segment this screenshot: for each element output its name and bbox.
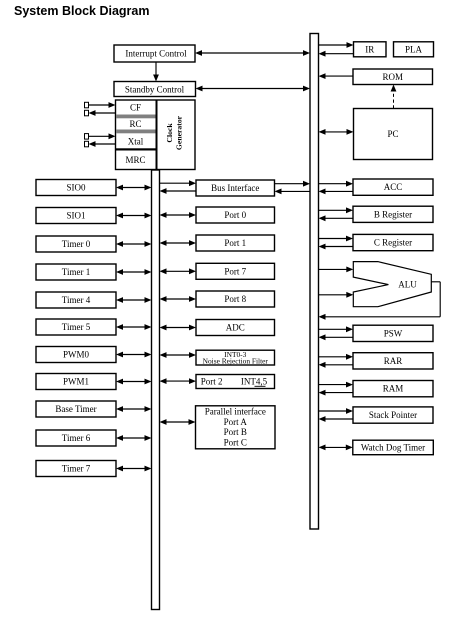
right internal bus (vertical bar) [310,34,319,530]
svg-text:INT4,5: INT4,5 [241,377,268,387]
svg-text:SIO0: SIO0 [66,183,86,193]
svg-text:PWM0: PWM0 [63,350,90,360]
wire central bus to Bus Interface (arrow right) [160,180,197,186]
svg-text:Timer 5: Timer 5 [62,322,91,332]
block IR [354,42,387,57]
svg-text:Xtal: Xtal [128,136,144,146]
svg-text:RC: RC [129,119,141,129]
wire clock generator to Xtal pin (arrow left) [89,141,116,147]
wire PWM1 to central bus (bidirectional) [116,379,152,385]
wire right bus to IR (arrow right) [319,42,354,48]
wire right bus to Watch Dog Timer (bidirectional) [319,445,353,451]
wire ACC to right bus (arrow left) [319,189,354,195]
block Bus Interface [196,180,275,196]
svg-text:Parallel interface: Parallel interface [205,407,266,417]
svg-text:Interrupt Control: Interrupt Control [125,49,187,59]
svg-text:RAM: RAM [383,384,404,394]
wire central bus to parallel interface (bidirectional) [160,419,196,425]
svg-text:MRC: MRC [125,155,145,165]
wire clock generator to CF pin (arrow left) [89,110,116,116]
block Timer 4 [36,292,116,308]
block Interrupt Control [114,45,195,62]
block ACC [353,179,433,195]
wire right bus to ALU upper input (arrow right) [319,267,354,273]
block PC [354,109,433,160]
svg-text:ACC: ACC [384,182,403,192]
block PSW [353,325,433,341]
wire Timer 5 to central bus (bidirectional) [116,324,152,330]
central internal bus (vertical bar) [152,170,160,610]
wire right bus to ALU lower input (arrow right) [319,292,354,298]
svg-text:IR: IR [365,45,374,55]
block Port 2 / INT4,5 [196,375,275,389]
block Timer 5 [36,319,116,335]
block Timer 6 [36,430,116,446]
block INT0-3 Noise Rejection Filter [196,350,275,366]
wire PWM0 to central bus (bidirectional) [116,352,152,358]
block ROM [353,69,433,85]
wire Timer 6 to central bus (bidirectional) [116,435,152,441]
pin square CF out [85,110,89,116]
block PWM1 [36,374,116,390]
block Port 7 [196,263,275,279]
wire Interrupt Control to Standby Control (down arrow) [153,62,159,82]
svg-text:PLA: PLA [405,45,423,55]
wire PSW to right bus (arrow left) [319,334,354,340]
block Timer 7 [36,461,116,477]
wire B Register to right bus (arrow left) [319,215,354,221]
svg-text:Base Timer: Base Timer [55,404,96,414]
pin square CF in [85,102,89,108]
block PWM0 [36,347,116,363]
svg-text:Timer 4: Timer 4 [62,295,91,305]
svg-text:Port B: Port B [224,427,247,437]
wire right bus to ACC (arrow right) [319,181,354,187]
wire Timer 0 to central bus (bidirectional) [116,241,152,247]
wire PC to ROM (dashed up arrow) [391,85,397,109]
wire central bus to ADC (bidirectional) [160,325,197,331]
svg-text:ADC: ADC [226,323,245,333]
svg-text:PSW: PSW [384,328,403,338]
wire SIO1 to central bus (bidirectional) [116,213,152,219]
svg-text:Stack Pointer: Stack Pointer [369,410,417,420]
wire right bus to B Register (arrow right) [319,207,354,213]
svg-text:Port 1: Port 1 [224,238,246,248]
svg-text:Timer 0: Timer 0 [62,239,91,249]
svg-text:Noise Rejection Filter: Noise Rejection Filter [203,357,269,366]
block C Register [353,234,433,250]
block ADC [196,320,275,336]
block Clock Generator (CF / RC / Xtal / MRC) [116,100,196,170]
svg-text:Port 2: Port 2 [201,377,223,387]
svg-text:Timer 6: Timer 6 [62,433,91,443]
wire central bus to Port 2 (bidirectional) [160,378,197,384]
block SIO1 [36,208,116,224]
wire IR to right bus (arrow left) [319,51,354,57]
pin square Xtal in [85,134,89,140]
block PLA [394,42,434,57]
wire RAR to right bus (arrow left) [319,362,354,368]
block RAR [353,353,433,369]
wire Stack Pointer to right bus (arrow left) [319,416,354,422]
block Watch Dog Timer [353,440,434,455]
wire Bus Interface to right bus (arrow right) [275,181,311,187]
block Standby Control [114,82,196,97]
wire right bus to RAM (arrow right) [319,382,354,388]
wire central bus to Port 8 (bidirectional) [160,296,197,302]
wire right bus to Stack Pointer (arrow right) [319,408,354,414]
svg-text:System Block Diagram: System Block Diagram [14,4,149,18]
wire ALU output feedback to right bus (arrow left at bus) [319,282,441,320]
wire right bus to C Register (arrow right) [319,236,354,242]
svg-text:Port 8: Port 8 [224,294,246,304]
wire Timer 7 to central bus (bidirectional) [116,466,152,472]
wire Timer 4 to central bus (bidirectional) [116,297,152,303]
svg-text:Port 0: Port 0 [224,210,246,220]
wire central bus to Port 1 (bidirectional) [160,240,197,246]
wire right bus to Bus Interface (arrow left) [275,189,311,195]
svg-text:CF: CF [130,102,141,112]
wire CF pin to clock generator (arrow right) [89,102,116,108]
block SIO0 [36,180,116,196]
svg-text:Watch Dog Timer: Watch Dog Timer [361,443,425,453]
block Timer 0 [36,236,116,252]
wire ROM to right bus (arrow left) [319,73,354,79]
block Port 8 [196,291,275,307]
svg-text:Bus Interface: Bus Interface [211,183,259,193]
wire central bus to noise rejection filter (bidirectional) [160,352,197,358]
wire central bus to Port 0 (bidirectional) [160,212,197,218]
wire Interrupt Control to right bus (bidirectional) [195,50,310,56]
ALU (arithmetic logic unit symbol) [353,262,431,307]
block Stack Pointer [353,407,433,423]
block Port 0 [196,207,275,223]
block Base Timer [36,401,116,417]
title: System Block Diagram [14,4,149,18]
wire RAM to right bus (arrow left) [319,390,354,396]
svg-text:PC: PC [387,129,398,139]
block B Register [353,206,433,222]
svg-text:B Register: B Register [374,209,412,219]
wire Standby Control to right bus (bidirectional) [196,86,311,92]
block Port 1 [196,235,275,251]
wire Base Timer to central bus (bidirectional) [116,406,152,412]
wire C Register to right bus (arrow left) [319,244,354,250]
block Timer 1 [36,264,116,280]
svg-text:RAR: RAR [384,356,403,366]
wire central bus to Port 7 (bidirectional) [160,268,197,274]
wire right bus to RAR (arrow right) [319,354,354,360]
svg-text:Timer 7: Timer 7 [62,464,91,474]
wire right bus to PSW (arrow right) [319,326,354,332]
wire Timer 1 to central bus (bidirectional) [116,269,152,275]
svg-text:Port C: Port C [224,438,247,448]
svg-text:C Register: C Register [374,238,412,248]
svg-text:ALU: ALU [398,279,417,289]
svg-text:Port 7: Port 7 [224,266,246,276]
block Parallel interface (Port A / Port B / Port C) [196,406,276,449]
svg-text:Standby Control: Standby Control [125,84,185,94]
wire right bus to PC (bidirectional) [319,129,354,135]
svg-text:ROM: ROM [383,72,404,82]
wire SIO0 to central bus (bidirectional) [116,185,152,191]
svg-text:Timer 1: Timer 1 [62,267,90,277]
block RAM [353,381,433,397]
svg-text:Port A: Port A [224,417,248,427]
svg-text:SIO1: SIO1 [66,211,85,221]
wire Xtal pin to clock generator (arrow right) [89,133,116,139]
pin square Xtal out [85,141,89,147]
svg-text:PWM1: PWM1 [63,377,89,387]
wire Bus Interface to central bus (arrow left) [160,188,197,194]
